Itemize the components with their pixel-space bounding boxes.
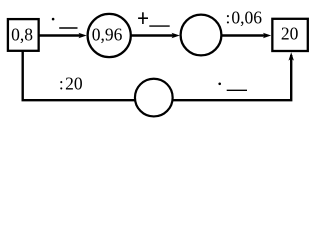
arrowhead up into box 20 bottom [289, 52, 294, 60]
arrow wire circle 0,96 to empty circle [131, 34, 176, 36]
svg-text:20: 20 [65, 74, 83, 94]
arrow wire box 0,8 to circle 0,96 [39, 34, 83, 36]
arrowhead into circle 0,96 [78, 33, 86, 38]
circle 0,96 [88, 14, 131, 57]
label plus-blank above second arrow [138, 17, 148, 19]
svg-text:20: 20 [281, 23, 299, 43]
wire from circle E right along bottom and up toward box 20 [173, 55, 291, 100]
svg-text::: : [59, 74, 64, 94]
label multiply-blank above first arrow [52, 18, 55, 21]
box 0,8 [8, 19, 39, 51]
svg-text:0,8: 0,8 [11, 24, 33, 44]
svg-text:0,06: 0,06 [231, 8, 262, 28]
label multiply-blank above bottom wire right [218, 83, 221, 86]
wire from box 0,8 down and along bottom to circle E [23, 50, 135, 100]
arrowhead into box 20 [263, 33, 271, 38]
empty circle top [181, 15, 222, 56]
empty circle bottom [135, 79, 173, 117]
box 20 [272, 19, 307, 51]
arrowhead into empty circle [172, 33, 180, 38]
svg-text:0,96: 0,96 [92, 25, 123, 45]
arrow wire empty circle to box 20 [222, 34, 268, 36]
svg-text::: : [225, 8, 230, 28]
